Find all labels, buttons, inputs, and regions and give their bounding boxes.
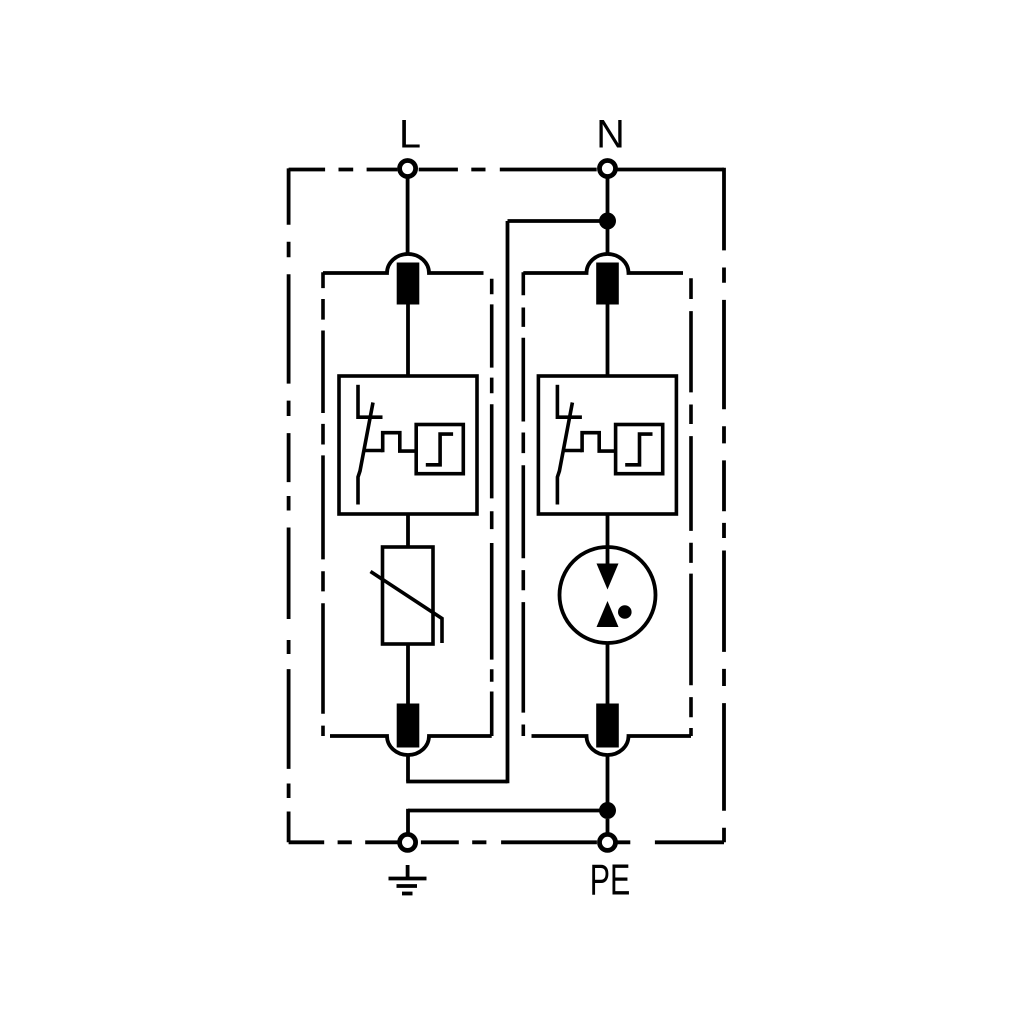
terminal PE (600, 834, 616, 850)
varistor RV1 (371, 547, 443, 644)
ground bar 1 (389, 877, 427, 881)
enclosure outline (dash-dot border, top edge) (289, 168, 724, 172)
U2 trip element box (616, 425, 663, 474)
wire: PE junction to PE terminal (606, 819, 610, 834)
ground bar 3 (402, 892, 413, 896)
U1 fixed contact lead (356, 385, 360, 419)
left module bottom edge with plug contact arc (330, 736, 492, 755)
ground symbol (389, 865, 427, 894)
ground bar 2 (397, 884, 418, 888)
disconnector U1 (left thermal disconnect device) (339, 376, 477, 514)
U1 actuator step line (383, 433, 417, 453)
RV1 diagonal stroke (371, 572, 443, 644)
right module top edge with plug contact arc (523, 254, 683, 273)
wire: N terminal down to right top contact (606, 178, 610, 255)
spark gap F1 (560, 547, 656, 643)
U2 fixed contact tick (556, 415, 582, 419)
terminal L (400, 161, 416, 177)
wire: L terminal to left top contact (406, 178, 410, 255)
enclosure outline (dash-dot border, right edge) (722, 168, 726, 843)
enclosure outline (dash-dot border, bottom edge) (289, 840, 724, 844)
right top contact pin (black) (596, 263, 619, 305)
F1 upper electrode arrow (597, 564, 619, 590)
wire: left bottom contact down (406, 755, 410, 782)
U2 actuator step line (582, 433, 616, 453)
wire: varistor to left bottom contact (406, 644, 410, 704)
U2 fixed contact lead (556, 385, 560, 419)
U2 trip characteristic step (625, 434, 652, 465)
wire: right top contact to right disconnector (606, 305, 610, 377)
ground stem (406, 865, 410, 878)
U1 trip characteristic step (426, 434, 453, 465)
wire: drop to ground terminal (406, 809, 410, 834)
wire: spark gap to right bottom contact (606, 626, 610, 704)
right module outline left edge (dash-dot) (521, 272, 525, 736)
U1 blade link (364, 449, 383, 453)
wire: left disconnector to varistor (406, 514, 410, 547)
F1 internal lead top (606, 548, 610, 565)
disconnector U2 (right thermal disconnect device) (538, 376, 676, 514)
left bottom contact pin (black) (397, 704, 420, 748)
U1 fixed contact tick (357, 415, 383, 419)
right module outline right edge (dash-dot) (689, 278, 693, 736)
F1 gap dot (618, 605, 632, 619)
enclosure outline (dash-dot border, left edge) (287, 168, 291, 842)
junction dot on N wire (599, 213, 616, 230)
U2 switch blade (557, 403, 572, 505)
RV1 body (383, 547, 434, 644)
wire: right bottom contact to PE junction (606, 755, 610, 811)
left top contact pin (black) (397, 263, 420, 305)
right module bottom edge with plug contact arc (532, 736, 692, 755)
U2 box (538, 376, 676, 514)
wire: riser between modules (506, 221, 510, 783)
left module top edge with plug contact arc (323, 254, 484, 273)
U1 box (339, 376, 477, 514)
U1 trip element box (416, 425, 463, 474)
terminal N (600, 161, 616, 177)
left module outline right edge (dash-dot) (490, 279, 494, 736)
svg-text:N: N (596, 113, 625, 157)
svg-text:L: L (399, 113, 421, 157)
U1 switch blade (358, 403, 373, 505)
junction dot at PE (599, 802, 616, 819)
U2 blade link (563, 449, 582, 453)
left module outline left edge (dash-dot) (321, 272, 325, 736)
wire: right disconnector to spark gap (606, 514, 610, 565)
wire: bottom horizontal to N-branch riser (406, 780, 507, 784)
right bottom contact pin (black) (596, 704, 619, 748)
F1 circle (560, 547, 656, 643)
wire: riser to N junction (508, 219, 608, 223)
svg-text:PE: PE (590, 857, 631, 905)
wire: PE junction horizontal to ground drop (408, 809, 608, 813)
F1 lower electrode arrow (597, 601, 619, 627)
wire: left top contact to left disconnector (406, 305, 410, 377)
terminal ground (400, 834, 416, 850)
